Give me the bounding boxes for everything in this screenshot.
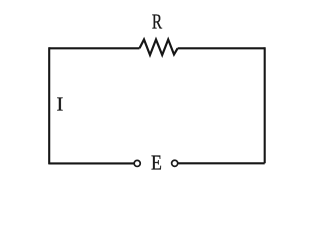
- svg-text:E: E: [151, 152, 162, 175]
- wire: left side: [48, 47, 50, 164]
- wire: top-left segment: [49, 47, 139, 49]
- wire: right side: [264, 47, 266, 163]
- svg-text:I: I: [56, 94, 63, 115]
- resistor R: [140, 40, 178, 56]
- terminal circle left: [134, 160, 140, 166]
- wire: bottom-right segment: [178, 162, 264, 164]
- wire: bottom-left segment: [49, 162, 133, 164]
- svg-text:R: R: [152, 10, 163, 33]
- terminal circle right: [172, 160, 178, 166]
- wire: top-right segment: [178, 47, 265, 49]
